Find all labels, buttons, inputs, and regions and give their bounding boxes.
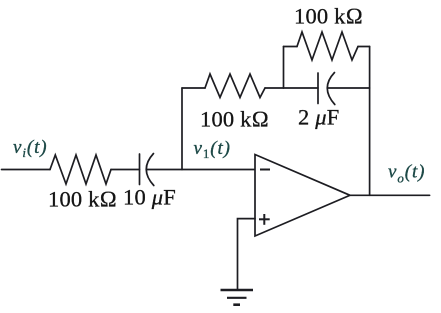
wire: right vertical feedback to output node xyxy=(369,47,371,196)
svg-text:100 kΩ: 100 kΩ xyxy=(294,4,363,29)
svg-text:v1(t): v1(t) xyxy=(194,138,231,161)
capacitor C1 10uF plate xyxy=(139,154,141,185)
resistor R1 100k (input) xyxy=(50,155,111,184)
svg-text:10 μF: 10 μF xyxy=(123,185,176,210)
wire: input lead to R1 xyxy=(2,169,51,171)
wire: op-amp plus input xyxy=(238,219,256,290)
wire: feedback lead to R2 xyxy=(182,87,205,89)
ground xyxy=(221,290,254,305)
wire: R2 to junction xyxy=(265,87,284,89)
wire: node v1 vertical up xyxy=(181,88,183,170)
svg-text:100 kΩ: 100 kΩ xyxy=(200,107,269,132)
svg-text:vi(t): vi(t) xyxy=(13,137,48,160)
svg-text:2 μF: 2 μF xyxy=(298,105,340,130)
op-amp plus sign xyxy=(259,214,270,225)
op-amp minus sign xyxy=(260,169,270,171)
wire: junction vertical up xyxy=(283,47,285,89)
resistor R2 100k (middle feedback) xyxy=(205,74,265,98)
capacitor C1 10uF curved plate xyxy=(146,154,154,186)
wire: R3 to right corner xyxy=(358,46,370,48)
wire: output xyxy=(350,194,430,196)
capacitor C2 2uF plate xyxy=(317,73,319,104)
resistor R3 100k (top feedback) xyxy=(297,32,358,60)
svg-text:vo(t): vo(t) xyxy=(388,162,425,186)
wire: junction to C2 xyxy=(284,87,319,89)
svg-text:100 kΩ: 100 kΩ xyxy=(48,187,117,212)
wire: R1 to C1 xyxy=(111,169,140,171)
wire: C2 to right vertical xyxy=(328,87,370,89)
wire: top lead to R3 xyxy=(284,46,298,48)
wire: C1 to op-amp minus input, node v1 xyxy=(147,169,256,171)
capacitor C2 2uF curved plate xyxy=(327,73,335,105)
op-amp U1 triangle xyxy=(255,155,350,237)
